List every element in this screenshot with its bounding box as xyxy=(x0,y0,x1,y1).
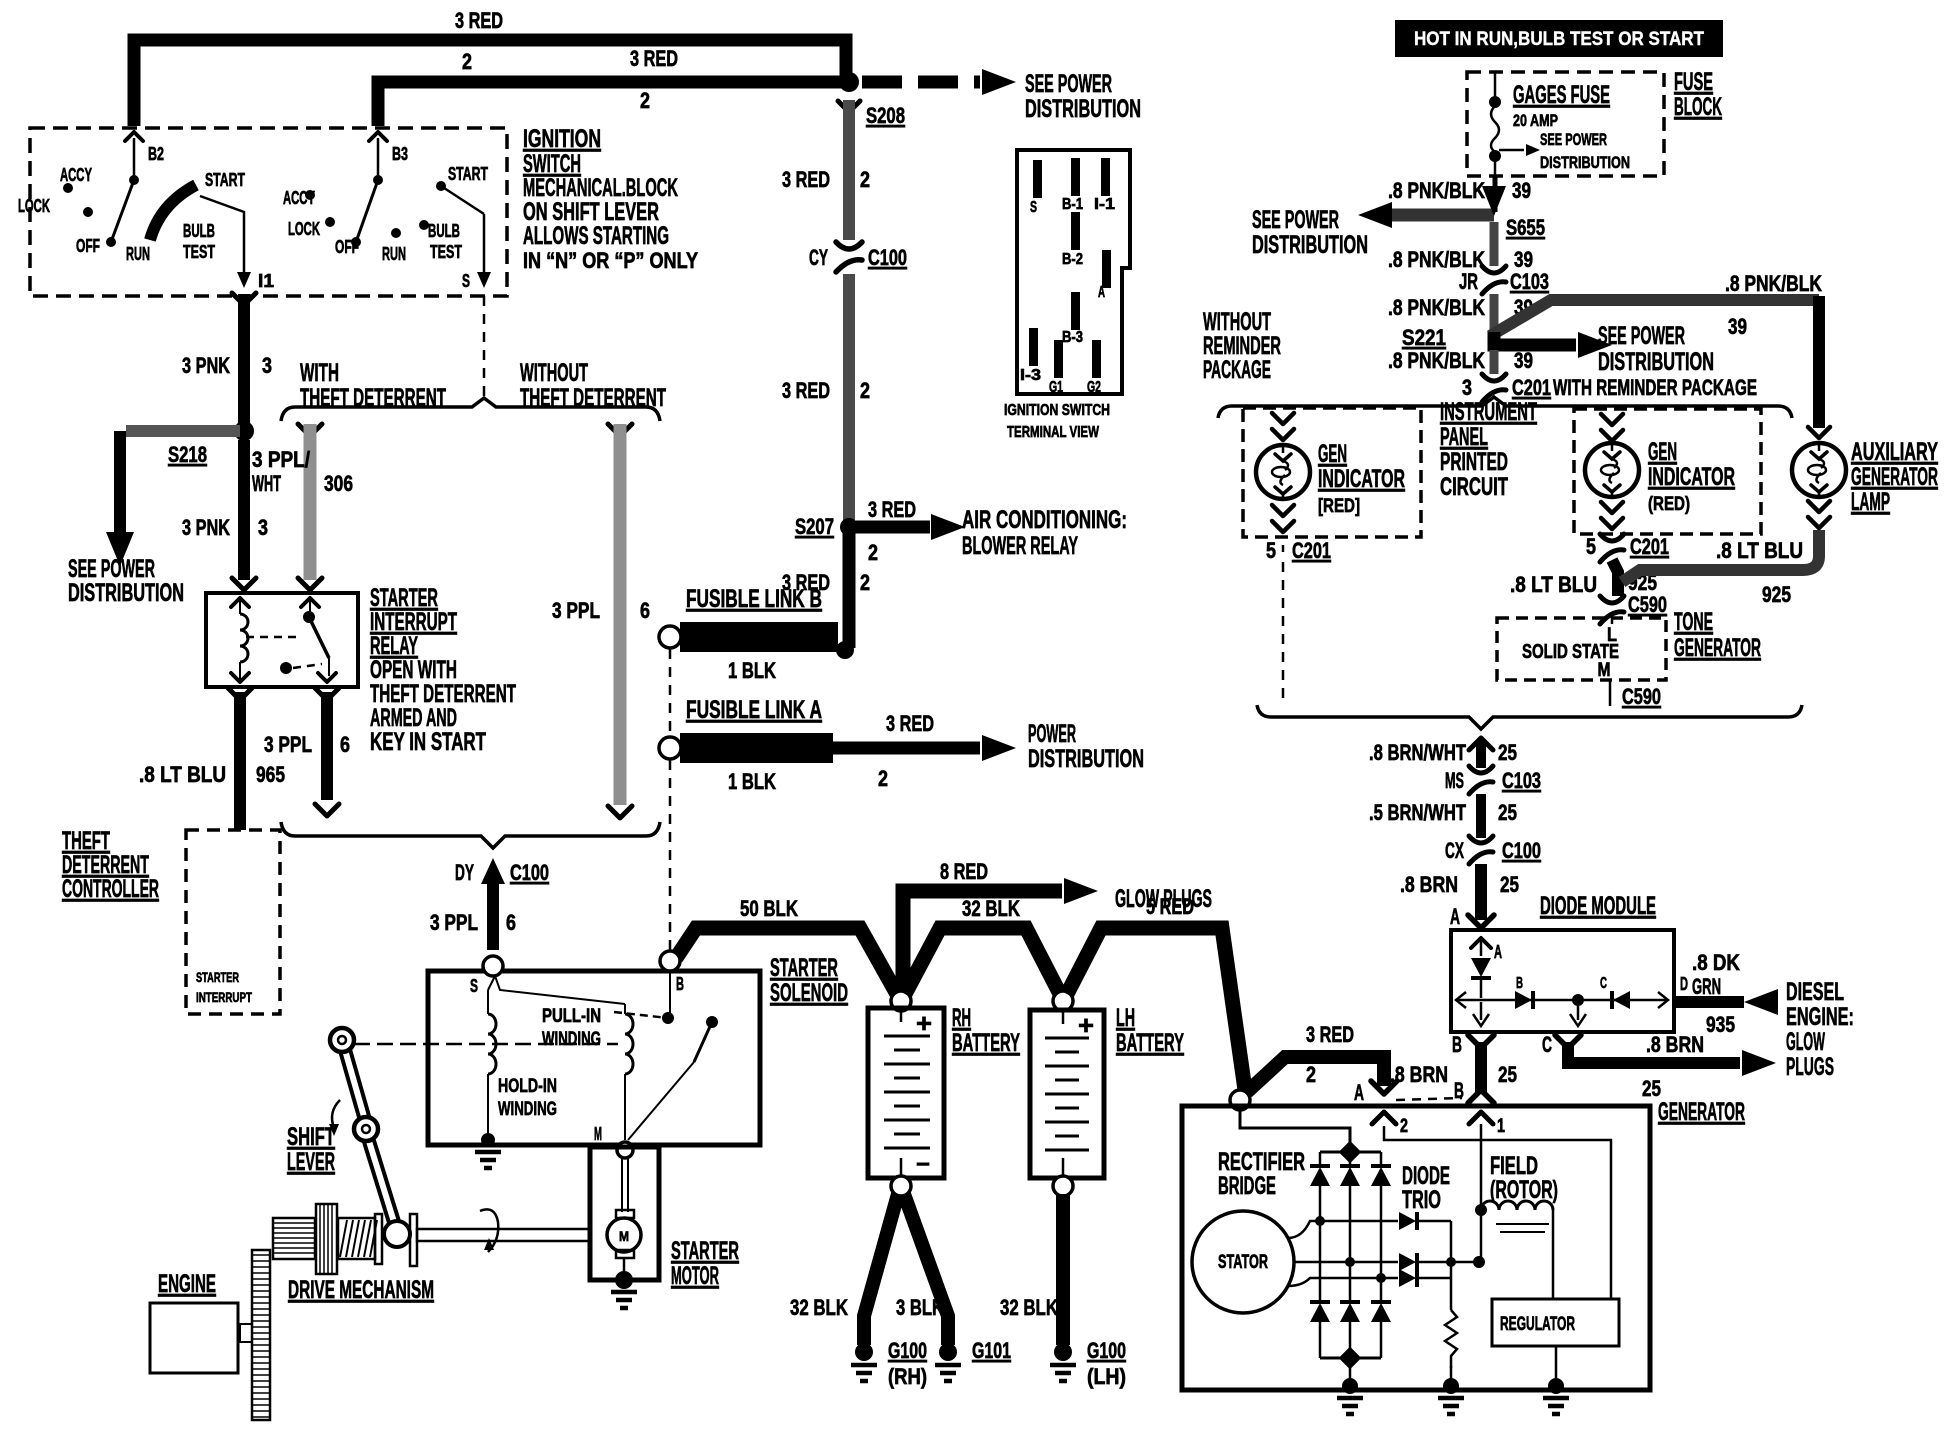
banner HOT IN RUN BULB TEST OR START xyxy=(1395,20,1723,57)
wire - switch2 START to S terminal xyxy=(483,214,486,278)
relay switch contacts xyxy=(301,598,319,607)
svg-text:3: 3 xyxy=(258,515,268,540)
svg-text:C: C xyxy=(1600,975,1607,992)
svg-text:DY: DY xyxy=(455,860,474,885)
svg-text:39: 39 xyxy=(1514,348,1533,373)
svg-text:B-2: B-2 xyxy=(1062,251,1083,268)
wire - 3 PPL to starter solenoid S xyxy=(487,874,499,950)
solenoid ground xyxy=(481,1133,495,1147)
svg-text:PRINTED: PRINTED xyxy=(1440,448,1508,476)
svg-text:3 PPL: 3 PPL xyxy=(552,598,600,623)
svg-text:REGULATOR: REGULATOR xyxy=(1500,1314,1575,1335)
ignition switch terminal view connector body xyxy=(1017,150,1130,394)
tone generator dashed box xyxy=(1497,618,1666,680)
connector C590 xyxy=(1600,596,1624,603)
svg-text:OFF: OFF xyxy=(76,236,100,256)
gen indicator left dashed box xyxy=(1243,408,1421,537)
svg-text:C590: C590 xyxy=(1622,684,1661,709)
svg-text:CIRCUIT: CIRCUIT xyxy=(1440,473,1508,501)
svg-text:WHT: WHT xyxy=(252,471,281,496)
svg-text:2: 2 xyxy=(860,570,870,595)
wire - .8 BRN module B to generator 1 xyxy=(1468,1035,1494,1048)
pin I-3 xyxy=(1029,328,1038,366)
svg-text:DRIVE MECHANISM: DRIVE MECHANISM xyxy=(288,1276,434,1304)
svg-text:I-3: I-3 xyxy=(1020,367,1041,384)
svg-text:STATOR: STATOR xyxy=(1218,1252,1268,1273)
connector C103 JR xyxy=(1482,266,1506,273)
drive plates and rod xyxy=(375,1214,382,1264)
wire - 3 RED S207 to fusible link B xyxy=(843,533,856,648)
svg-text:3 PNK: 3 PNK xyxy=(182,353,230,378)
svg-text:STARTER: STARTER xyxy=(770,954,838,982)
svg-text:3 RED: 3 RED xyxy=(868,497,916,522)
svg-text:WITH REMINDER PACKAGE: WITH REMINDER PACKAGE xyxy=(1553,375,1757,400)
svg-text:(RED): (RED) xyxy=(1648,494,1690,515)
svg-text:TERMINAL VIEW: TERMINAL VIEW xyxy=(1007,424,1100,441)
mechanical link dashed xyxy=(354,1043,618,1046)
connector C201 xyxy=(1482,374,1506,381)
ring gear xyxy=(252,1250,270,1420)
gen indicator left lamp xyxy=(1272,413,1294,424)
svg-text:GAGES FUSE: GAGES FUSE xyxy=(1513,81,1610,109)
svg-text:3 RED: 3 RED xyxy=(886,711,934,736)
svg-text:BLOWER RELAY: BLOWER RELAY xyxy=(962,532,1078,560)
ignition switch 1 run-start wedge xyxy=(150,185,196,240)
wire - 3 RED feed to ignition switch B3 xyxy=(378,82,846,126)
svg-text:39: 39 xyxy=(1728,314,1747,339)
field to regulator wires xyxy=(1552,1210,1555,1299)
svg-text:5: 5 xyxy=(1586,534,1596,559)
svg-text:.8 BRN: .8 BRN xyxy=(1646,1032,1704,1057)
wire - dashed A to B on generator top xyxy=(1396,1098,1462,1100)
svg-text:C100: C100 xyxy=(1502,838,1541,863)
wire - 3 RED S208 to C100 (highlighted) xyxy=(838,101,860,112)
starter interrupt relay box xyxy=(206,593,358,687)
wire - .8 PNK/BLK S655 to C103 xyxy=(1490,222,1499,266)
svg-text:A: A xyxy=(1354,1080,1364,1105)
svg-text:G1: G1 xyxy=(1049,379,1063,396)
svg-text:D: D xyxy=(1680,974,1688,994)
svg-text:6: 6 xyxy=(506,910,516,935)
svg-text:965: 965 xyxy=(256,762,285,787)
svg-text:925: 925 xyxy=(1762,582,1791,607)
svg-text:PLUGS: PLUGS xyxy=(1786,1053,1834,1081)
svg-text:32 BLK: 32 BLK xyxy=(962,896,1020,921)
svg-text:AUXILIARY: AUXILIARY xyxy=(1851,438,1938,466)
svg-text:C: C xyxy=(1542,1032,1552,1057)
svg-text:.8 PNK/BLK: .8 PNK/BLK xyxy=(1388,178,1485,203)
svg-text:ENGINE: ENGINE xyxy=(158,1270,216,1298)
regulator ground xyxy=(1555,1346,1558,1384)
pin S xyxy=(1033,160,1042,198)
connector C100 CX xyxy=(1469,836,1493,843)
svg-text:TEST: TEST xyxy=(430,242,462,262)
wire - 3 PNK I1 down to S218 xyxy=(232,293,256,305)
wire - .8 BRN/WHT bracket to C103 xyxy=(1469,738,1493,750)
fusible link A xyxy=(680,733,833,763)
svg-text:DISTRIBUTION: DISTRIBUTION xyxy=(68,579,184,607)
regulator xyxy=(1492,1299,1619,1346)
svg-text:KEY IN START: KEY IN START xyxy=(370,728,486,756)
svg-text:C100: C100 xyxy=(868,245,907,270)
svg-text:GENERATOR: GENERATOR xyxy=(1851,463,1938,491)
gen indicator right dashed box xyxy=(1574,409,1761,534)
wire - dashed arrow to see power distribution xyxy=(862,76,980,89)
svg-text:SHIFT: SHIFT xyxy=(287,1123,335,1151)
svg-text:HOLD-IN: HOLD-IN xyxy=(498,1076,557,1097)
fuse output arrow xyxy=(1499,149,1524,152)
bracket - instrument panel bottom xyxy=(1257,705,1802,729)
rectifier bridge xyxy=(1320,1151,1381,1154)
svg-text:(RH): (RH) xyxy=(888,1364,927,1389)
ignition switch 2 contacts xyxy=(305,190,315,200)
svg-text:2: 2 xyxy=(640,88,650,113)
svg-text:3 RED: 3 RED xyxy=(630,46,678,71)
svg-text:M: M xyxy=(619,1228,629,1244)
stator xyxy=(1192,1211,1294,1313)
svg-text:.8 PNK/BLK: .8 PNK/BLK xyxy=(1388,348,1485,373)
svg-text:C201: C201 xyxy=(1630,534,1669,559)
svg-text:RH: RH xyxy=(952,1004,971,1032)
svg-text:CONTROLLER: CONTROLLER xyxy=(62,875,159,903)
bracket - instrument panel top xyxy=(1218,397,1792,418)
svg-text:BULB: BULB xyxy=(183,221,215,241)
wire - 32 BLK RH to LH battery xyxy=(905,928,1060,994)
wire - 3 RED C100 to S207 (highlighted) xyxy=(843,274,855,520)
svg-text:PANEL: PANEL xyxy=(1440,423,1488,451)
svg-text:.8 PNK/BLK: .8 PNK/BLK xyxy=(1388,295,1485,320)
svg-text:G100: G100 xyxy=(1087,1338,1126,1363)
svg-text:WINDING: WINDING xyxy=(542,1029,601,1050)
svg-text:2: 2 xyxy=(860,167,870,192)
svg-text:GENERATOR: GENERATOR xyxy=(1658,1098,1745,1126)
pin B-2 xyxy=(1071,212,1080,250)
node S655 with arrow to see power distribution xyxy=(1392,209,1494,222)
wire - .8 PNK/BLK S221 to C201 xyxy=(1490,350,1499,374)
terminal LH battery + xyxy=(1053,991,1073,1011)
svg-text:A: A xyxy=(1098,284,1105,301)
ignition switch dashed box xyxy=(30,128,507,296)
terminal M xyxy=(617,1142,633,1158)
svg-text:WITH: WITH xyxy=(300,359,339,387)
svg-text:.8 BRN: .8 BRN xyxy=(1390,1062,1448,1087)
svg-text:306: 306 xyxy=(324,471,353,496)
solenoid contact xyxy=(669,971,671,1014)
svg-text:LOCK: LOCK xyxy=(288,219,320,239)
svg-text:PULL-IN: PULL-IN xyxy=(542,1006,601,1027)
svg-text:2: 2 xyxy=(1400,1116,1408,1137)
wire - 925 aux lamp to C590 junction (highlighted) xyxy=(1622,530,1819,582)
svg-text:STARTER: STARTER xyxy=(671,1237,739,1265)
svg-text:5 RED: 5 RED xyxy=(1146,894,1194,919)
svg-text:1 BLK: 1 BLK xyxy=(728,769,776,794)
svg-text:2: 2 xyxy=(860,378,870,403)
svg-text:G2: G2 xyxy=(1087,379,1101,396)
drive mechanism pinion gear xyxy=(273,1218,315,1259)
svg-text:DISTRIBUTION: DISTRIBUTION xyxy=(1028,745,1144,773)
wire - .8 PNK/BLK C103 to S221 xyxy=(1490,294,1499,330)
shift lever xyxy=(345,1050,365,1120)
wire - dashed fusible links to solenoid B xyxy=(669,649,672,736)
svg-text:INSTRUMENT: INSTRUMENT xyxy=(1440,398,1537,426)
svg-text:.5 BRN/WHT: .5 BRN/WHT xyxy=(1369,800,1466,825)
terminal RH battery + xyxy=(891,991,911,1011)
junction dot xyxy=(1572,994,1584,1006)
svg-text:2: 2 xyxy=(1306,1062,1316,1087)
svg-text:25: 25 xyxy=(1498,1062,1517,1087)
svg-text:B: B xyxy=(1454,1078,1464,1103)
terminal RH battery - xyxy=(891,1176,911,1196)
svg-text:POWER: POWER xyxy=(1028,720,1076,748)
stator phase wires xyxy=(1288,1221,1398,1238)
svg-text:2: 2 xyxy=(868,540,878,565)
svg-text:6: 6 xyxy=(340,732,350,757)
svg-text:FUSE: FUSE xyxy=(1674,68,1713,96)
wire - .8 LT BLU C201 to C590 xyxy=(1612,560,1618,596)
svg-text:S: S xyxy=(470,976,478,996)
svg-text:RUN: RUN xyxy=(382,244,406,264)
svg-text:M: M xyxy=(594,1124,602,1144)
svg-text:BLOCK: BLOCK xyxy=(1674,93,1722,121)
svg-text:GEN: GEN xyxy=(1648,438,1677,466)
terminal B xyxy=(660,951,680,971)
wire - tone generator to bracket xyxy=(1609,680,1612,706)
svg-text:1: 1 xyxy=(1497,1116,1505,1137)
starter motor box xyxy=(590,1147,659,1280)
svg-text:B2: B2 xyxy=(148,144,164,164)
wire - .8 LT BLU relay to theft deterrent controller xyxy=(228,688,252,700)
svg-text:PACKAGE: PACKAGE xyxy=(1203,356,1271,384)
svg-text:BATTERY: BATTERY xyxy=(952,1029,1020,1057)
svg-text:MS: MS xyxy=(1445,768,1464,793)
svg-text:I-1: I-1 xyxy=(1094,196,1115,213)
svg-text:935: 935 xyxy=(1706,1012,1735,1037)
svg-text:.8 BRN/WHT: .8 BRN/WHT xyxy=(1369,740,1466,765)
svg-text:LAMP: LAMP xyxy=(1851,488,1890,516)
resistor xyxy=(1445,1310,1457,1368)
bracket - theft deterrent options bottom xyxy=(281,822,660,848)
pin B-1 xyxy=(1071,158,1080,196)
wire - 3 PPL 6 without theft deterrent (highlighted) xyxy=(608,424,632,436)
svg-text:IN “N” OR “P” ONLY: IN “N” OR “P” ONLY xyxy=(523,248,698,273)
svg-text:C201: C201 xyxy=(1512,375,1551,400)
wire - .8 LT BLU to auxiliary generator lamp xyxy=(1813,296,1825,428)
svg-text:3: 3 xyxy=(262,353,272,378)
module internal bus xyxy=(1458,999,1666,1002)
generator terminal 1 xyxy=(1469,1112,1493,1124)
svg-text:.8 BRN: .8 BRN xyxy=(1400,872,1458,897)
svg-text:ENGINE:: ENGINE: xyxy=(1786,1003,1854,1031)
wire - 3 PNK S218 to starter interrupt relay xyxy=(238,440,250,580)
svg-text:B3: B3 xyxy=(392,144,408,164)
svg-text:LOCK: LOCK xyxy=(18,196,50,216)
svg-text:3 PNK: 3 PNK xyxy=(182,515,230,540)
svg-text:+: + xyxy=(1078,1010,1094,1040)
svg-text:START: START xyxy=(205,170,245,190)
svg-text:OFF: OFF xyxy=(335,237,359,257)
svg-text:.8 LT BLU: .8 LT BLU xyxy=(1510,572,1597,597)
svg-text:DISTRIBUTION: DISTRIBUTION xyxy=(1598,348,1714,376)
ignition switch 1 contacts xyxy=(63,183,73,193)
svg-text:AIR CONDITIONING:: AIR CONDITIONING: xyxy=(962,506,1127,534)
node S218 splice xyxy=(234,421,254,441)
wire - RH battery grounds xyxy=(864,1194,898,1345)
svg-text:I1: I1 xyxy=(258,271,274,291)
svg-text:C100: C100 xyxy=(510,860,549,885)
svg-text:.8 PNK/BLK: .8 PNK/BLK xyxy=(1725,271,1822,296)
svg-text:INDICATOR: INDICATOR xyxy=(1318,465,1405,493)
svg-text:LH: LH xyxy=(1116,1004,1135,1032)
generator BAT internal wire xyxy=(1240,1110,1350,1146)
ground G100 LH xyxy=(1054,1343,1072,1361)
relay coil xyxy=(231,598,249,607)
svg-text:A: A xyxy=(1450,904,1460,929)
wire - arrow down to see power distribution xyxy=(114,431,126,535)
svg-text:DISTRIBUTION: DISTRIBUTION xyxy=(1252,231,1368,259)
svg-text:TEST: TEST xyxy=(183,242,215,262)
svg-text:−: − xyxy=(916,1151,930,1178)
wire - 3 RED arrow to air conditioning blower relay xyxy=(855,521,930,534)
wire - 3 PPL/WHT 306 (highlighted) xyxy=(298,424,322,436)
theft deterrent controller dashed box xyxy=(186,830,280,1014)
svg-text:B: B xyxy=(1452,1032,1462,1057)
wire - 3 RED feed to ignition switch B2 xyxy=(134,40,846,126)
svg-text:ALLOWS STARTING: ALLOWS STARTING xyxy=(523,222,669,250)
solenoid windings xyxy=(495,976,625,1004)
svg-text:SEE POWER: SEE POWER xyxy=(1598,322,1685,350)
wire - 8 RED to glow plugs xyxy=(903,891,1062,988)
svg-text:JR: JR xyxy=(1459,269,1478,294)
wire - 3 RED fusible link A to power distribution xyxy=(833,742,980,755)
wire - S221 arrow to see power distribution xyxy=(1494,332,1576,345)
wire - dashed from ignition S xyxy=(483,296,486,402)
pin I-1 xyxy=(1101,158,1110,196)
svg-text:25: 25 xyxy=(1498,800,1517,825)
svg-text:RUN: RUN xyxy=(126,244,150,264)
wire - 5 RED LH battery to generator xyxy=(1067,928,1245,1090)
svg-text:GENERATOR: GENERATOR xyxy=(1674,634,1761,662)
svg-text:DISTRIBUTION: DISTRIBUTION xyxy=(1025,95,1141,123)
connector C100 CY xyxy=(836,242,862,249)
wire - .5 BRN/WHT C103 to C100 xyxy=(1476,794,1486,838)
svg-text:.8 DK: .8 DK xyxy=(1692,950,1740,975)
wire - 3 PPL relay to lower bracket xyxy=(315,688,339,700)
svg-text:INTERRUPT: INTERRUPT xyxy=(196,989,252,1005)
svg-text:3 PPL/: 3 PPL/ xyxy=(252,447,310,472)
svg-text:25: 25 xyxy=(1500,872,1519,897)
svg-text:ACCY: ACCY xyxy=(283,188,315,208)
svg-text:.8 LT BLU: .8 LT BLU xyxy=(1716,538,1803,563)
connector C103 MS xyxy=(1469,766,1493,773)
svg-text:S655: S655 xyxy=(1506,215,1545,240)
svg-text:6: 6 xyxy=(640,598,650,623)
svg-text:START: START xyxy=(448,164,488,184)
svg-text:3: 3 xyxy=(1462,375,1472,400)
svg-text:TONE: TONE xyxy=(1674,608,1713,636)
svg-text:LEVER: LEVER xyxy=(287,1148,335,1176)
rectifier ground xyxy=(1349,1366,1352,1384)
auxiliary generator lamp xyxy=(1808,427,1830,438)
svg-text:8 RED: 8 RED xyxy=(940,859,988,884)
wire - .8 BRN module C to glow plugs xyxy=(1555,1035,1581,1048)
svg-text:C590: C590 xyxy=(1628,592,1667,617)
starter motor xyxy=(621,1158,623,1212)
svg-text:TRIO: TRIO xyxy=(1402,1186,1441,1214)
pin A xyxy=(1102,250,1111,288)
svg-text:3 BLK: 3 BLK xyxy=(896,1295,944,1320)
wire - 32 BLK LH battery ground xyxy=(1056,1194,1070,1345)
svg-text:.8 LT BLU: .8 LT BLU xyxy=(139,762,226,787)
svg-text:G100: G100 xyxy=(888,1338,927,1363)
svg-text:BRIDGE: BRIDGE xyxy=(1218,1172,1276,1200)
gen indicator right lamp xyxy=(1601,414,1623,425)
bracket - theft deterrent options top xyxy=(281,398,660,421)
svg-text:WITHOUT: WITHOUT xyxy=(520,359,588,387)
svg-text:3 RED: 3 RED xyxy=(1306,1022,1354,1047)
wire - switch1 START to I1 xyxy=(200,196,244,278)
pin G2 xyxy=(1092,340,1101,378)
ground G101 xyxy=(939,1343,957,1361)
svg-text:B: B xyxy=(676,974,684,994)
svg-text:GEN: GEN xyxy=(1318,440,1347,468)
svg-text:DIESEL: DIESEL xyxy=(1786,978,1844,1006)
svg-text:C103: C103 xyxy=(1502,768,1541,793)
svg-text:STARTER: STARTER xyxy=(196,969,239,985)
svg-text:3 RED: 3 RED xyxy=(782,378,830,403)
svg-text:50 BLK: 50 BLK xyxy=(740,896,798,921)
diode A xyxy=(1471,938,1491,948)
svg-text:CY: CY xyxy=(809,245,828,270)
svg-text:FUSIBLE LINK A: FUSIBLE LINK A xyxy=(686,696,822,724)
generator box xyxy=(1182,1106,1650,1390)
ignition switch 2 terminal B3 xyxy=(377,138,380,180)
terminal LH battery - xyxy=(1053,1176,1073,1196)
svg-text:[RED]: [RED] xyxy=(1318,496,1360,517)
node S208 splice dot xyxy=(839,72,859,92)
svg-text:A: A xyxy=(1494,942,1502,962)
starter motor ground xyxy=(615,1271,633,1289)
wire - 3 RED generator A feed xyxy=(1247,1057,1384,1092)
svg-text:(LH): (LH) xyxy=(1087,1364,1126,1389)
svg-text:5: 5 xyxy=(1266,538,1276,563)
svg-text:S218: S218 xyxy=(168,442,207,467)
LH battery xyxy=(1030,1010,1104,1178)
wire - S218 stub left (highlighted) xyxy=(126,425,240,437)
svg-text:G101: G101 xyxy=(972,1338,1011,1363)
svg-text:S207: S207 xyxy=(795,514,834,539)
svg-text:3 PPL: 3 PPL xyxy=(264,732,312,757)
svg-text:39: 39 xyxy=(1512,178,1531,203)
svg-text:GLOW: GLOW xyxy=(1786,1028,1825,1056)
node S207 splice xyxy=(840,518,858,536)
svg-text:MOTOR: MOTOR xyxy=(671,1262,719,1290)
svg-text:1 BLK: 1 BLK xyxy=(728,658,776,683)
svg-text:32 BLK: 32 BLK xyxy=(790,1295,848,1320)
svg-text:3 PPL: 3 PPL xyxy=(430,910,478,935)
svg-text:2: 2 xyxy=(878,766,888,791)
svg-text:3 RED: 3 RED xyxy=(455,8,503,33)
wire - 50 BLK solenoid B to RH battery xyxy=(676,928,897,994)
svg-text:B-1: B-1 xyxy=(1062,196,1083,213)
svg-text:25: 25 xyxy=(1498,740,1517,765)
svg-text:IGNITION: IGNITION xyxy=(523,125,601,153)
svg-text:S: S xyxy=(1030,199,1037,216)
ignition switch 1 terminal B2 xyxy=(133,138,136,180)
diode module box xyxy=(1451,930,1674,1032)
svg-text:S208: S208 xyxy=(866,103,905,128)
terminal S xyxy=(483,956,503,976)
fuse block dashed box xyxy=(1467,72,1664,176)
